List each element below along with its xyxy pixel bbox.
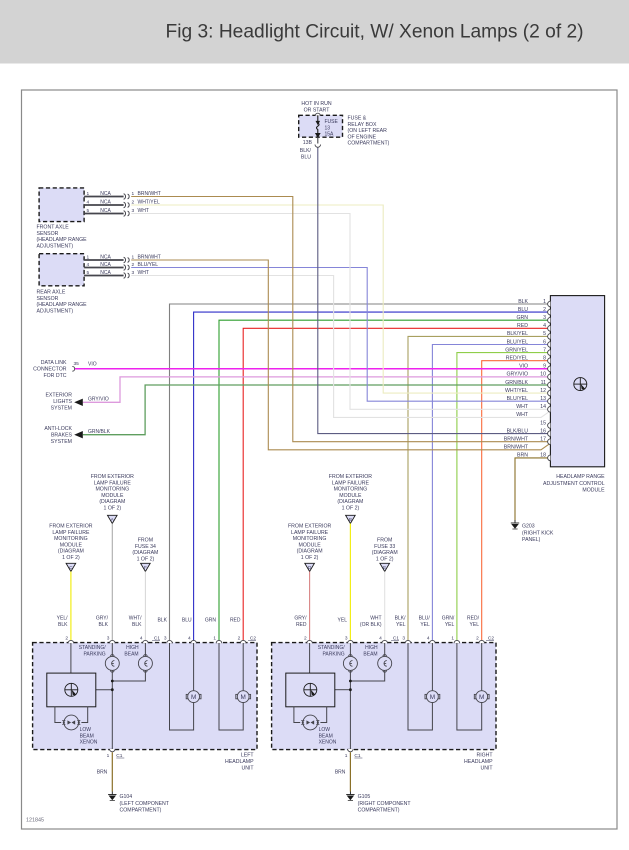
rear axle sensor (dashed) [39,254,84,286]
ground G105 [346,792,354,801]
svg-text:BLU: BLU [182,618,192,624]
wire BLK/YEL pin5 to right headlamp [408,336,550,643]
wire YEL triangle B to right headlamp [349,524,351,644]
svg-text:M: M [479,694,484,701]
wire to ballast [70,643,72,673]
wire to ballast [309,643,311,673]
svg-text:LAMP FAILURE: LAMP FAILURE [52,530,90,536]
triangle connector B [346,515,356,523]
triangle connector E [380,563,390,571]
svg-text:WHT/YEL: WHT/YEL [505,388,528,394]
title bar [0,0,629,64]
left headlamp unit (dashed) [33,643,257,750]
svg-text:RIGHT: RIGHT [476,753,493,759]
ballast internal symbol [65,683,78,696]
svg-text:2: 2 [238,636,241,642]
svg-text:BLU: BLU [301,155,311,161]
wire BRN to ground [349,752,351,791]
svg-text:1: 1 [132,191,135,197]
svg-text:WHT: WHT [516,404,529,410]
svg-text:7: 7 [543,347,546,353]
svg-text:BLK/YEL: BLK/YEL [507,331,528,337]
svg-text:OR START: OR START [304,108,331,114]
svg-text:BLU/: BLU/ [419,616,431,622]
svg-text:1 OF 2): 1 OF 2) [301,555,319,561]
leveling motor M [474,691,489,703]
svg-text:BLK: BLK [58,622,68,628]
wire GRN/BLK pin11 from anti-lock brakes system [83,385,551,435]
svg-text:BLU/YEL: BLU/YEL [507,339,528,345]
low beam xenon bulb [301,715,319,730]
svg-text:3: 3 [132,270,135,276]
svg-text:LOW: LOW [80,727,92,733]
svg-text:BLK/BLU: BLK/BLU [507,428,529,434]
svg-text:8: 8 [543,356,546,362]
svg-text:BLK/: BLK/ [300,148,312,154]
svg-text:XENON: XENON [319,740,337,746]
svg-text:HEADLAMP RANGE: HEADLAMP RANGE [556,474,605,480]
ground G104 [108,792,116,801]
svg-text:G105: G105 [358,794,371,800]
svg-text:1: 1 [345,753,348,759]
svg-text:FROM EXTERIOR: FROM EXTERIOR [91,474,134,480]
svg-text:FUSE 33: FUSE 33 [374,544,395,550]
svg-text:WHT: WHT [370,616,381,622]
wire GRY/VIO pin10 from exterior lights system [83,377,551,402]
svg-text:RED/YEL: RED/YEL [506,356,528,362]
svg-text:MONITORING: MONITORING [334,487,368,493]
wire ballast join [335,689,351,691]
svg-text:E: E [383,565,386,570]
svg-text:3: 3 [107,636,110,642]
svg-text:BEAM: BEAM [124,651,138,657]
svg-text:GRN/YEL: GRN/YEL [505,347,528,353]
svg-text:LAMP FAILURE: LAMP FAILURE [291,530,329,536]
front axle sensor pins and stubs [84,196,124,198]
svg-text:6: 6 [543,339,546,345]
svg-text:SYSTEM: SYSTEM [51,405,72,411]
svg-text:FUSE 34: FUSE 34 [135,544,156,550]
svg-text:MODULE: MODULE [101,493,124,499]
svg-text:1: 1 [213,636,216,642]
svg-text:17: 17 [540,437,546,443]
svg-text:1 OF 2): 1 OF 2) [137,556,155,562]
svg-text:RED: RED [230,618,241,624]
svg-text:DATA LINK: DATA LINK [41,360,67,366]
svg-text:HEADLAMP: HEADLAMP [464,759,493,765]
svg-text:11: 11 [541,380,546,386]
svg-text:BRN: BRN [97,770,108,776]
svg-text:4: 4 [188,636,191,642]
wire BLU/YEL pin6 [432,345,550,644]
svg-text:1: 1 [87,255,90,261]
svg-text:ANTI-LOCK: ANTI-LOCK [44,426,72,432]
svg-text:HIGH: HIGH [365,645,378,651]
svg-text:FOR DTC: FOR DTC [43,373,66,379]
svg-text:ADJUSTMENT): ADJUSTMENT) [37,308,74,314]
svg-text:1: 1 [87,191,90,197]
svg-text:BEAM: BEAM [319,733,333,739]
svg-text:5: 5 [543,331,546,337]
wire BLU/YEL rear axle sensor to pin13 [131,268,550,402]
svg-text:GRY/: GRY/ [294,616,307,622]
wire WHT/BLK triangle F to left headlamp [144,572,146,644]
svg-text:5: 5 [87,208,90,214]
svg-text:YEL: YEL [396,622,406,628]
svg-text:ADJUSTMENT): ADJUSTMENT) [37,243,74,249]
svg-text:(RIGHT COMPONENT: (RIGHT COMPONENT [358,801,412,807]
wire WHT rear axle sensor joining pin14 [131,276,550,418]
fuse 13 symbol [316,115,320,137]
svg-text:COMPARTMENT): COMPARTMENT) [120,808,162,814]
fuse & relay box (dashed) [299,115,343,137]
svg-text:M: M [191,694,196,701]
wire VIO pin9 from data link connector [75,368,551,370]
ballast to xenon legs [55,707,61,723]
svg-text:ADJUSTMENT CONTROL: ADJUSTMENT CONTROL [543,481,605,487]
svg-text:VIO: VIO [519,364,528,370]
svg-text:18: 18 [540,453,546,459]
wire RED/YEL pin8 [482,361,551,643]
leveling motor U loop 1 [408,643,432,730]
svg-text:PARKING: PARKING [322,651,344,657]
svg-text:BRAKES: BRAKES [51,432,73,438]
svg-text:COMPARTMENT): COMPARTMENT) [348,141,390,147]
svg-text:COMPARTMENT): COMPARTMENT) [358,808,400,814]
wire BRN/WHT front axle sensor to pin17 [131,197,550,442]
svg-text:BLU/YEL: BLU/YEL [138,262,159,268]
svg-text:BRN/WHT: BRN/WHT [138,255,161,261]
svg-text:BRN: BRN [517,453,528,459]
svg-text:BLK: BLK [99,622,109,628]
wire GRY/BLK triangle A to left headlamp [111,524,113,644]
svg-text:YEL/: YEL/ [57,616,68,622]
svg-text:RED: RED [517,323,528,329]
svg-text:35: 35 [74,361,80,367]
svg-text:BEAM: BEAM [363,651,377,657]
svg-text:GRY/VIO: GRY/VIO [88,396,109,402]
leveling motor M [186,691,201,703]
svg-text:2: 2 [132,200,135,206]
svg-text:FROM: FROM [377,538,392,544]
svg-text:4: 4 [87,200,90,206]
headlamp range adjustment control module U1 [550,296,604,467]
svg-text:YEL: YEL [445,622,455,628]
svg-text:4: 4 [379,636,382,642]
ballast to xenon legs [294,707,300,723]
svg-text:HOT IN RUN: HOT IN RUN [301,101,331,107]
wire to standing/parking bulb [111,643,113,656]
svg-text:1: 1 [132,255,135,261]
svg-text:BRN/WHT: BRN/WHT [138,191,161,197]
svg-text:STANDING/: STANDING/ [318,645,345,651]
wire BRN pin18 to ground G203 [515,458,550,521]
svg-text:RELAY BOX: RELAY BOX [348,122,377,128]
svg-text:GRN: GRN [205,618,217,624]
svg-text:BRN/WHT: BRN/WHT [504,445,529,451]
svg-text:SENSOR: SENSOR [37,296,59,302]
svg-text:1 OF 2): 1 OF 2) [62,555,80,561]
wire RED pin4 [243,328,550,643]
svg-text:15A: 15A [325,132,335,138]
wire to standing/parking bulb [349,643,351,656]
svg-text:MONITORING: MONITORING [293,536,327,542]
svg-text:YEL: YEL [420,622,430,628]
svg-text:NCA: NCA [100,208,111,214]
svg-text:10: 10 [540,372,546,378]
wire WHT (OR BLK) triangle E to right headlamp [384,572,386,644]
leveling motor U loop 2 [457,643,482,730]
svg-text:VIO: VIO [88,362,97,368]
leveling motor M [236,691,251,703]
svg-text:4: 4 [87,262,90,268]
svg-text:BRN/WHT: BRN/WHT [504,437,529,443]
svg-text:OF ENGINE: OF ENGINE [348,134,377,140]
triangle connector C [66,563,76,571]
svg-text:LAMP FAILURE: LAMP FAILURE [332,480,370,486]
leveling motor M [425,691,440,703]
svg-text:WHT/YEL: WHT/YEL [138,200,160,206]
triangle connector D [305,563,315,571]
svg-text:3: 3 [402,636,405,642]
wire to high beam bulb [384,643,386,656]
wire GRY/RED triangle D to right headlamp [309,572,311,644]
bottom pin 1 C1 [348,749,354,752]
svg-text:LAMP FAILURE: LAMP FAILURE [94,480,132,486]
bottom pin 1 C1 [110,749,116,752]
wire BLK pin1 to left headlamp [170,304,551,643]
right headlamp unit (dashed) [272,643,496,750]
svg-text:GRY/VIO: GRY/VIO [506,372,528,378]
leveling motor U loop 2 [219,643,243,730]
svg-text:2: 2 [543,307,546,313]
svg-text:1: 1 [107,753,110,759]
svg-text:SYSTEM: SYSTEM [51,439,72,445]
svg-text:(LEFT COMPONENT: (LEFT COMPONENT [120,801,170,807]
wire BRN/WHT rear axle sensor joining pin17 [131,260,550,450]
wire WHT/YEL front axle sensor to pin12 [131,205,550,393]
svg-text:2: 2 [304,636,307,642]
svg-text:(DIAGRAM: (DIAGRAM [297,549,323,555]
svg-text:NCA: NCA [100,270,111,276]
svg-text:MODULE: MODULE [60,542,83,548]
svg-text:14: 14 [540,404,546,410]
standing/parking bulb [343,655,357,673]
triangle connector F [141,563,151,571]
svg-text:NCA: NCA [100,262,111,268]
svg-text:NCA: NCA [100,200,111,206]
front axle sensor (dashed) [39,188,84,222]
svg-text:PARKING: PARKING [83,651,105,657]
svg-text:BLK: BLK [518,299,528,305]
svg-text:FROM EXTERIOR: FROM EXTERIOR [329,474,372,480]
svg-text:MONITORING: MONITORING [95,487,129,493]
svg-text:(DIAGRAM: (DIAGRAM [372,550,398,556]
wire to high beam bulb [144,643,146,656]
svg-text:FROM EXTERIOR: FROM EXTERIOR [49,524,92,530]
wire BLU pin2 [194,312,551,643]
svg-text:LEFT: LEFT [241,753,255,759]
svg-text:2: 2 [476,636,479,642]
wire GRN/YEL pin7 [457,353,551,643]
svg-text:FRONT AXLE: FRONT AXLE [37,225,70,231]
svg-text:GRN: GRN [516,315,528,321]
svg-text:(DIAGRAM: (DIAGRAM [99,499,125,505]
ballast internal symbol [304,683,317,696]
leveling motor U loop 1 [170,643,194,730]
svg-text:LIGHTS: LIGHTS [53,399,72,405]
svg-text:1: 1 [451,636,454,642]
high beam bulb [378,655,392,673]
svg-text:XENON: XENON [80,740,98,746]
module pin connectors and labels [548,301,551,307]
svg-text:16: 16 [540,428,546,434]
triangle connector A [108,515,118,523]
svg-text:BRN: BRN [335,770,346,776]
svg-text:(DIAGRAM: (DIAGRAM [337,499,363,505]
svg-text:GRN/BLK: GRN/BLK [88,429,111,435]
svg-text:UNIT: UNIT [241,766,254,772]
svg-text:CONNECTOR: CONNECTOR [33,366,67,372]
wire high beam join [112,670,145,681]
svg-text:HIGH: HIGH [126,645,139,651]
wire standing/parking to bottom pin [349,670,351,749]
wire BRN to ground [111,752,113,791]
svg-text:(HEADLAMP RANGE: (HEADLAMP RANGE [37,302,88,308]
rear axle sensor pins and stubs [84,259,124,261]
svg-text:WHT/: WHT/ [129,616,142,622]
svg-text:4: 4 [543,323,546,329]
svg-text:M: M [430,694,435,701]
svg-text:WHT: WHT [138,208,149,214]
svg-text:BEAM: BEAM [80,733,94,739]
svg-text:FUSE &: FUSE & [348,116,367,122]
svg-text:12: 12 [540,388,546,394]
wire standing/parking to bottom pin [111,670,113,749]
svg-text:G104: G104 [120,794,133,800]
svg-text:BLK: BLK [158,618,168,624]
svg-text:FROM: FROM [138,538,153,544]
svg-text:(ON LEFT REAR: (ON LEFT REAR [348,128,388,134]
wire high beam join [350,670,384,681]
svg-text:FROM EXTERIOR: FROM EXTERIOR [288,524,331,530]
svg-text:3: 3 [543,315,546,321]
svg-text:FUSE: FUSE [325,119,339,125]
ground G203 [511,520,519,529]
svg-text:1 OF 2): 1 OF 2) [342,506,360,512]
svg-text:EXTERIOR: EXTERIOR [45,393,72,399]
svg-text:HEADLAMP: HEADLAMP [225,759,254,765]
svg-text:4: 4 [140,636,143,642]
svg-text:1 OF 2): 1 OF 2) [104,506,122,512]
wire BLK/BLU fuse 13 to pin16 [318,147,551,434]
svg-text:1: 1 [543,299,546,305]
svg-text:(RIGHT KICK: (RIGHT KICK [522,530,554,536]
svg-text:NCA: NCA [100,255,111,261]
svg-text:PANEL): PANEL) [522,537,541,543]
svg-text:LOW: LOW [319,727,331,733]
svg-text:BLK/: BLK/ [395,616,406,622]
low beam xenon bulb [62,715,80,730]
svg-text:B: B [349,517,352,522]
standing/parking bulb [105,655,119,673]
svg-text:15: 15 [540,420,546,426]
svg-text:(HEADLAMP RANGE: (HEADLAMP RANGE [37,237,88,243]
svg-text:121845: 121845 [26,818,44,824]
svg-text:MODULE: MODULE [339,493,362,499]
svg-text:13B: 13B [303,140,313,146]
svg-text:GRY/: GRY/ [96,616,109,622]
wire ballast join [96,689,113,691]
svg-text:Fig 3: Headlight Circuit, W/ X: Fig 3: Headlight Circuit, W/ Xenon Lamps… [166,22,584,43]
module internal actuator symbol [574,378,587,391]
svg-text:9: 9 [543,364,546,370]
wire WHT front axle sensor to pin14 [131,214,550,410]
svg-text:3: 3 [164,636,167,642]
svg-text:(DIAGRAM: (DIAGRAM [132,550,158,556]
svg-text:(OR BLK): (OR BLK) [360,622,382,628]
svg-text:GRN/: GRN/ [442,616,455,622]
svg-text:BLK: BLK [132,622,142,628]
svg-text:G203: G203 [522,524,535,530]
svg-text:BLU/YEL: BLU/YEL [507,396,528,402]
svg-text:3: 3 [345,636,348,642]
svg-text:2: 2 [65,636,68,642]
ballast box [286,673,335,707]
high beam bulb [138,655,152,673]
svg-text:GRN/BLK: GRN/BLK [505,380,528,386]
svg-text:MODULE: MODULE [298,542,321,548]
svg-text:M: M [241,694,246,701]
ballast box [47,673,96,707]
svg-text:RED: RED [296,622,307,628]
svg-text:MONITORING: MONITORING [54,536,88,542]
svg-text:13: 13 [325,125,331,131]
svg-text:F: F [144,565,147,570]
wire GRN pin3 [219,320,550,643]
svg-text:WHT: WHT [138,270,149,276]
svg-text:YEL: YEL [470,622,480,628]
svg-text:1 OF 2): 1 OF 2) [376,556,394,562]
svg-text:4: 4 [427,636,430,642]
svg-text:BLU: BLU [518,307,528,313]
svg-text:YEL: YEL [338,618,348,624]
svg-text:(DIAGRAM: (DIAGRAM [58,549,84,555]
svg-text:3: 3 [132,208,135,214]
svg-text:UNIT: UNIT [480,766,493,772]
svg-text:SENSOR: SENSOR [37,231,59,237]
svg-text:STANDING/: STANDING/ [79,645,106,651]
svg-text:NCA: NCA [100,191,111,197]
svg-text:WHT: WHT [516,412,529,418]
svg-text:13: 13 [540,396,546,402]
svg-text:RED/: RED/ [467,616,480,622]
svg-text:MODULE: MODULE [582,488,605,494]
svg-text:5: 5 [87,270,90,276]
svg-text:REAR AXLE: REAR AXLE [37,290,66,296]
svg-text:2: 2 [132,262,135,268]
wire YEL/BLK triangle C to left headlamp [70,572,72,644]
